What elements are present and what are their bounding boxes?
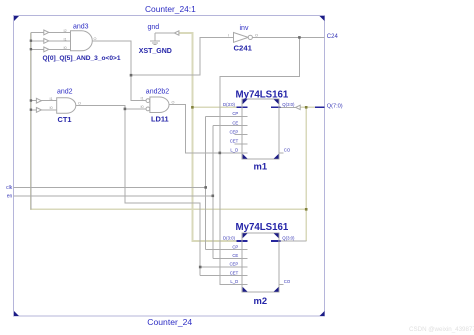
svg-text:I1: I1 — [141, 97, 144, 101]
svg-text:m1: m1 — [254, 160, 268, 171]
svg-text:My74LS161: My74LS161 — [236, 222, 289, 233]
svg-text:LD11: LD11 — [151, 114, 169, 123]
svg-text:CET: CET — [230, 270, 239, 275]
svg-text:L_D: L_D — [230, 148, 238, 153]
svg-text:Q(3:0): Q(3:0) — [282, 236, 295, 241]
svg-text:CP: CP — [232, 111, 238, 116]
svg-text:and3: and3 — [73, 24, 89, 31]
svg-text:XST_GND: XST_GND — [139, 48, 172, 55]
svg-text:O: O — [78, 102, 81, 106]
svg-text:CT1: CT1 — [58, 115, 72, 124]
svg-text:CET: CET — [230, 139, 239, 144]
svg-text:C241: C241 — [234, 44, 253, 53]
svg-text:CSDN @weixin_43987756: CSDN @weixin_43987756 — [409, 326, 474, 333]
svg-text:gnd: gnd — [148, 24, 160, 31]
svg-text:My74LS161: My74LS161 — [236, 89, 289, 100]
svg-text:CP: CP — [232, 244, 238, 249]
svg-text:I0: I0 — [141, 105, 144, 109]
svg-text:Q(7:0): Q(7:0) — [327, 104, 343, 110]
svg-text:D(3:0): D(3:0) — [223, 236, 236, 241]
svg-text:C24: C24 — [327, 34, 339, 40]
svg-text:CEP: CEP — [229, 262, 238, 267]
svg-text:CO: CO — [284, 279, 291, 284]
svg-text:CE: CE — [232, 120, 238, 125]
svg-text:en: en — [7, 194, 13, 200]
svg-text:I1: I1 — [50, 97, 53, 101]
svg-text:I0: I0 — [64, 46, 67, 50]
svg-text:L_D: L_D — [230, 279, 238, 284]
svg-text:and2b2: and2b2 — [146, 88, 169, 95]
svg-text:D(3:0): D(3:0) — [223, 102, 236, 107]
svg-text:inv: inv — [240, 25, 249, 32]
svg-text:Q[0]_Q[5]_AND_3_o<0>1: Q[0]_Q[5]_AND_3_o<0>1 — [43, 55, 121, 62]
svg-text:I: I — [228, 33, 229, 37]
svg-text:O: O — [172, 101, 175, 105]
svg-text:CO: CO — [284, 148, 291, 153]
svg-text:I2: I2 — [64, 29, 67, 33]
svg-text:I0: I0 — [50, 106, 53, 110]
svg-text:CE: CE — [232, 253, 238, 258]
svg-text:Counter_24: Counter_24 — [147, 317, 192, 327]
svg-text:m2: m2 — [254, 295, 268, 306]
svg-text:Q(3:0): Q(3:0) — [282, 102, 295, 107]
svg-text:O: O — [94, 37, 97, 41]
svg-text:clk: clk — [6, 185, 13, 191]
svg-text:I1: I1 — [64, 37, 67, 41]
svg-text:Counter_24:1: Counter_24:1 — [145, 4, 196, 14]
svg-text:and2: and2 — [57, 88, 73, 95]
svg-text:CEP: CEP — [229, 129, 238, 134]
svg-text:O: O — [255, 33, 258, 37]
